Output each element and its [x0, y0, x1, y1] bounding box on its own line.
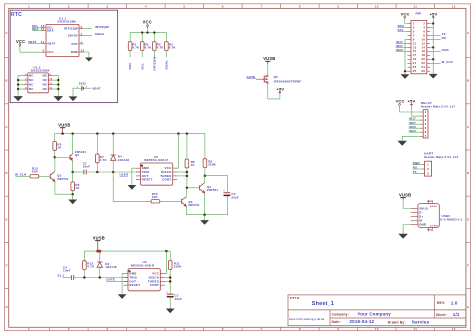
wire Q2 collector node to C1 [73, 171, 84, 173]
svg-text:ULED: ULED [120, 173, 129, 177]
junction dots RPI right rail [432, 22, 434, 60]
svg-text:+5V: +5V [408, 98, 416, 103]
wire Q5 drain to +5V [268, 84, 280, 99]
wire VBAT [28, 42, 42, 44]
svg-text:Date:: Date: [332, 320, 341, 324]
svg-text:4.7K: 4.7K [157, 46, 165, 50]
border zone ticks left [5, 58, 9, 289]
svg-text:12: 12 [452, 327, 456, 331]
svg-text:DS3231SN#: DS3231SN# [31, 68, 50, 72]
connector UART body [425, 161, 432, 176]
USB pin names [419, 206, 428, 226]
svg-text:CONT: CONT [150, 283, 159, 287]
wire OUT column down to R10 row [113, 172, 151, 201]
resistor R13 51R [30, 175, 39, 178]
svg-text:SDA: SDA [128, 62, 132, 69]
wire 32kHz [84, 35, 93, 37]
svg-text:W_CLK: W_CLK [15, 172, 27, 176]
connector RELAY body [423, 110, 428, 138]
svg-text:4.7K: 4.7K [132, 46, 140, 50]
ground symbol RPI right [429, 74, 438, 79]
wire GATE to U4 OUT [106, 280, 128, 282]
svg-text:1: 1 [28, 327, 30, 331]
svg-text:F: F [467, 264, 469, 268]
ground symbol U4 [118, 294, 127, 299]
svg-text:2N5551: 2N5551 [188, 203, 200, 207]
junction dots pull-up rail [141, 31, 156, 33]
wire VUSB rail (555 #2) [84, 251, 170, 261]
svg-text:3: 3 [427, 172, 429, 176]
svg-text:RESET: RESET [142, 178, 153, 182]
svg-text:11: 11 [413, 4, 417, 8]
wire U4 GND to ground [122, 274, 123, 295]
wire Q3 emitter to bottom rail [186, 196, 227, 215]
svg-text:GATE: GATE [247, 75, 256, 79]
wire RELAY pin 7 to ground [402, 136, 420, 140]
svg-text:E: E [5, 217, 7, 221]
wire node to ground [72, 194, 74, 199]
resistor R1 4.7K [128, 42, 132, 51]
svg-text:6: 6 [222, 327, 224, 331]
svg-text:4.7K: 4.7K [145, 46, 153, 50]
transistor Q5 IRF9540NSTRPBF [262, 75, 268, 84]
resistor R11 510K [168, 261, 172, 270]
resistor R12 4.7K [83, 261, 87, 270]
svg-text:Q2: Q2 [75, 153, 79, 157]
svg-text:Your Company: Your Company [357, 312, 391, 317]
svg-text:VCC: VCC [47, 50, 54, 54]
wire R9 bottom to output node [204, 168, 206, 176]
svg-text:NE555G-S08-R: NE555G-S08-R [144, 158, 168, 162]
wire R10 to Q3 base [160, 200, 182, 202]
wire U4 DISCH to column [165, 277, 170, 279]
wire U1.2 left NC bus [18, 76, 23, 97]
svg-text:26: 26 [421, 69, 425, 73]
U3 pin stubs [136, 168, 177, 180]
junction dots on TRIG wire [96, 171, 114, 174]
ground symbol USB [398, 234, 408, 239]
junction dots U1.2 left [17, 79, 19, 90]
junction dot emitter node [71, 193, 74, 196]
IC U4 NE555 body [128, 269, 160, 291]
svg-text:VCC: VCC [401, 11, 410, 16]
svg-text:E: E [467, 217, 469, 221]
svg-text:+5V: +5V [430, 11, 438, 16]
svg-text:hups://tiny.sharing-p.db.bb: hups://tiny.sharing-p.db.bb [289, 318, 325, 321]
IC U1.2 DS3231SN# body [28, 73, 48, 93]
svg-text:S1.1: S1.1 [58, 274, 65, 278]
svg-text:2: 2 [43, 49, 45, 53]
svg-text:NC: NC [29, 74, 34, 78]
USB shield stubs top [429, 200, 433, 204]
USB pin stubs left [411, 209, 418, 225]
ground symbol output stage [200, 220, 209, 225]
svg-text:NC: NC [43, 87, 48, 91]
resistor R5 1K [53, 142, 57, 151]
svg-text:7: 7 [425, 134, 427, 138]
junction node Q1 collector / Q2 base [53, 156, 56, 159]
hierarchical sheet RTC [10, 10, 117, 102]
svg-text:+: + [223, 190, 225, 193]
junction dots U1.2 right [57, 79, 59, 90]
svg-text:Sheet:: Sheet: [436, 313, 447, 317]
svg-text:G: G [5, 305, 8, 309]
resistor R9 220K [203, 159, 207, 168]
svg-text:IRF9540NSTRPBF: IRF9540NSTRPBF [274, 80, 302, 84]
svg-text:22uF: 22uF [175, 297, 183, 301]
title block frame [288, 295, 466, 326]
svg-text:G: G [467, 305, 470, 309]
svg-text:10: 10 [375, 4, 379, 8]
svg-text:+5V: +5V [276, 87, 284, 92]
svg-text:RESET: RESET [129, 283, 140, 287]
svg-text:GND: GND [427, 201, 433, 203]
svg-text:4: 4 [81, 40, 83, 44]
transistor Q1 2N5551 [50, 171, 55, 181]
capacitor C2 22uF polarized [224, 192, 231, 194]
transistor Q3 2N5551 [182, 197, 187, 207]
svg-text:2019-04-12: 2019-04-12 [350, 319, 375, 324]
svg-text:U-C-MODD-1-1: U-C-MODD-1-1 [440, 218, 463, 222]
svg-text:TITLE:: TITLE: [290, 296, 301, 300]
svg-text:GND: GND [71, 50, 78, 54]
svg-text:VCC: VCC [16, 39, 25, 44]
wire Q4 emitter down [204, 193, 206, 215]
svg-text:VUSB: VUSB [58, 123, 70, 128]
wire R13 to Q1 base [39, 175, 50, 177]
RPI pin numbers [413, 21, 426, 73]
svg-text:8: 8 [299, 327, 301, 331]
svg-text:10: 10 [375, 327, 379, 331]
wire GATE to Q5 gate [256, 78, 262, 80]
svg-text:RPI: RPI [416, 11, 422, 15]
svg-text:10nF: 10nF [83, 165, 91, 169]
diode D4 1N4148 [112, 134, 114, 155]
svg-text:+: + [166, 291, 168, 294]
svg-text:VBAT: VBAT [92, 86, 101, 90]
ground symbol battery [69, 96, 78, 101]
svg-text:GND: GND [419, 222, 426, 226]
wire VUSB to Q5 [267, 64, 269, 75]
wire battery left to ground [73, 88, 82, 96]
wires below pull-ups [130, 51, 166, 58]
svg-text:GND: GND [427, 230, 433, 232]
wire R5 bottom [54, 150, 56, 157]
RPI pin stubs left [408, 24, 412, 72]
wire Q2 collector down [72, 161, 74, 172]
svg-text:32KHZ: 32KHZ [68, 34, 78, 38]
wire S1.1 to C4 [63, 277, 72, 279]
RELAY pin stubs [420, 112, 424, 136]
wire +5V to RELAY pin 2 [412, 106, 420, 116]
svg-text:RX: RX [442, 36, 446, 40]
wire Q4 collector up [204, 176, 206, 183]
svg-text:NC: NC [29, 83, 34, 87]
capacitor C3 22uF polarized [167, 293, 174, 295]
IC U1.1 DS3231SN# body [46, 24, 79, 56]
svg-text:4.7K: 4.7K [87, 265, 95, 269]
svg-text:1: 1 [28, 4, 30, 8]
ground symbol RELAY [397, 141, 407, 146]
wire U3 THRES to R8 column [177, 175, 187, 177]
wire SDA [32, 29, 42, 31]
border zone ticks top [50, 4, 435, 9]
ground symbol U3 [128, 185, 137, 190]
ground symbol C3 [166, 309, 175, 314]
svg-text:1/1: 1/1 [453, 312, 460, 317]
U1.2 pin stubs [23, 76, 52, 89]
wire Q1 collector [54, 157, 56, 171]
svg-text:F: F [6, 264, 8, 268]
svg-text:9: 9 [337, 4, 339, 8]
RPI pin stubs right [427, 24, 430, 72]
svg-text:Header Male-2.54_1x7: Header Male-2.54_1x7 [421, 104, 456, 108]
svg-text:8: 8 [299, 4, 301, 8]
wire bottom rail to ground [204, 215, 206, 220]
resistor R3 4.7K [153, 42, 157, 51]
svg-text:1K: 1K [75, 186, 80, 190]
junction dot RPI left rail [404, 70, 406, 72]
svg-text:11: 11 [413, 327, 417, 331]
svg-text:VBAT: VBAT [47, 41, 56, 45]
wire C3 to ground [169, 297, 171, 309]
junction dot output node [204, 174, 207, 177]
svg-text:5: 5 [183, 4, 185, 8]
wire U4 VCC up to rail [160, 251, 166, 274]
svg-text:12: 12 [452, 4, 456, 8]
transistor Q4 2N5551 [199, 183, 204, 193]
svg-text:3: 3 [106, 327, 108, 331]
wire VUSB rail (main 555) [55, 134, 205, 159]
svg-text:4.7K: 4.7K [100, 158, 108, 162]
svg-text:2: 2 [427, 167, 429, 171]
transistor Q2 2N5401 [70, 154, 73, 161]
svg-text:32kHz: 32kHz [95, 32, 105, 36]
svg-text:VUSB: VUSB [93, 236, 105, 241]
wire U1.2 right NC bus [53, 76, 59, 97]
wire node to Q2 base [55, 156, 70, 158]
svg-text:IO23: IO23 [442, 48, 449, 52]
svg-text:VUSB: VUSB [399, 193, 411, 198]
svg-text:2N5551: 2N5551 [207, 188, 219, 192]
svg-text:NE555G-S08-R: NE555G-S08-R [131, 263, 155, 267]
svg-text:VUSB: VUSB [263, 56, 275, 61]
svg-text:25: 25 [413, 69, 417, 73]
svg-text:3: 3 [81, 25, 83, 29]
wire USB GND to ground [403, 225, 410, 234]
wire VCC to U1.1 pin 2 [20, 47, 42, 52]
svg-text:barvius: barvius [412, 320, 429, 325]
svg-text:4: 4 [145, 4, 147, 8]
USB shield stubs bottom [429, 227, 433, 231]
U1.1 pin stubs and numbers [42, 27, 84, 52]
svg-text:SCL: SCL [140, 63, 144, 69]
svg-text:2: 2 [68, 4, 70, 8]
svg-text:NC: NC [43, 78, 48, 82]
svg-text:2: 2 [68, 327, 70, 331]
svg-text:1N4148: 1N4148 [118, 158, 130, 162]
svg-text:1K: 1K [191, 163, 196, 167]
border zone ticks bottom [50, 327, 435, 330]
junction dots on TRIG wire 2 [83, 276, 101, 279]
wire R8 bottom through DISCH/THRES to Q4 base [187, 168, 200, 188]
svg-text:1K: 1K [57, 145, 62, 149]
wire U3 DISCH to R8 column [177, 171, 187, 173]
ground symbol U1.2 right [54, 96, 64, 101]
svg-text:1.0: 1.0 [451, 301, 458, 306]
svg-text:51R: 51R [32, 169, 39, 173]
svg-text:6: 6 [222, 4, 224, 8]
resistor R10 10K [151, 200, 160, 203]
wire VCC to RELAY pin 1 [400, 105, 420, 112]
svg-text:NC: NC [43, 83, 48, 87]
svg-text:7: 7 [260, 327, 262, 331]
wire Q3 collector up to Q4 base node [185, 188, 187, 197]
resistor R7 4.7K [96, 134, 98, 154]
UART pin stubs [421, 165, 425, 174]
wire VCC to RPI pin 1 [405, 18, 408, 23]
wire U3 VCC up to rail [173, 134, 179, 169]
svg-text:32kHz: 32kHz [165, 60, 169, 70]
svg-text:10K: 10K [152, 195, 159, 199]
wire SCL [32, 26, 42, 28]
svg-text:220K: 220K [208, 163, 216, 167]
svg-text:RST: RST [72, 42, 78, 46]
wire RPI left ground rail [405, 39, 408, 74]
svg-text:DS3231SN#: DS3231SN# [58, 20, 77, 24]
svg-text:4.7K: 4.7K [169, 46, 177, 50]
svg-text:Drawn By:: Drawn By: [388, 321, 406, 325]
svg-text:VCC: VCC [143, 19, 152, 24]
svg-text:2N5551: 2N5551 [57, 177, 69, 181]
ground symbol RPI left [401, 74, 410, 79]
wire +5V rail down RPI right [432, 19, 434, 74]
wire C4 to U4 TRIG [74, 277, 128, 279]
junction dot Q2 collector node [71, 171, 74, 174]
junction dots R11 column [169, 276, 172, 282]
svg-text:22uF: 22uF [231, 195, 239, 199]
wire W_CLK to R13 [16, 175, 31, 177]
IC U3 NE555 body [140, 163, 172, 185]
wire Q1 emitter down [55, 181, 73, 194]
wire Q2 emitter to rail [72, 134, 74, 154]
svg-text:A1 B12: A1 B12 [430, 224, 439, 227]
ground symbol U1.1 [85, 58, 93, 62]
ground symbol U1.2 left [13, 96, 23, 101]
border zone ticks right [466, 58, 471, 289]
svg-text:INT/SQW: INT/SQW [95, 25, 109, 29]
wire VCC rail pull-ups [130, 33, 166, 42]
svg-text:Header Male-2.54_1x3: Header Male-2.54_1x3 [424, 155, 459, 159]
svg-text:2032: 2032 [79, 82, 86, 86]
svg-text:Sheet_1: Sheet_1 [312, 301, 334, 307]
svg-text:REV:: REV: [437, 301, 445, 305]
svg-text:1: 1 [81, 32, 83, 36]
wire U3 GND to ground [132, 168, 136, 185]
svg-text:SDA: SDA [47, 28, 54, 32]
resistor R6 1K [72, 172, 74, 182]
wire U1.1 GND [84, 52, 89, 58]
svg-text:NC: NC [43, 74, 48, 78]
wire C1 to TRIG [86, 171, 140, 173]
svg-text:NC: NC [29, 87, 34, 91]
svg-text:1N4148: 1N4148 [105, 265, 117, 269]
svg-text:3: 3 [106, 4, 108, 8]
svg-text:RTC: RTC [11, 12, 22, 18]
connector USB0 body [418, 204, 439, 228]
ground symbol Q1/R6 [68, 200, 77, 205]
svg-text:CONT: CONT [162, 178, 171, 182]
resistor R8 1K [186, 134, 188, 160]
svg-text:VCC: VCC [396, 98, 405, 103]
resistor R2 4.7K [140, 42, 144, 51]
wire VUSB to VBUS [403, 200, 410, 209]
svg-text:INT/SQW: INT/SQW [152, 57, 156, 71]
svg-text:Company:: Company: [332, 312, 349, 316]
svg-text:9: 9 [337, 327, 339, 331]
diode D2 1N4148 [99, 251, 101, 262]
svg-text:5: 5 [183, 327, 185, 331]
svg-text:1: 1 [427, 163, 429, 167]
svg-text:INT/SQW: INT/SQW [64, 26, 78, 30]
svg-text:W_CLK: W_CLK [442, 60, 454, 64]
USB pin numbers [430, 205, 439, 228]
svg-text:10nF: 10nF [63, 269, 71, 273]
junction dots R8 column [186, 171, 189, 189]
wire output node to C2 top [205, 176, 228, 193]
svg-text:7: 7 [260, 4, 262, 8]
wire INT/SQW [84, 28, 93, 30]
wire R11 bottom through DISCH/THRES to C3 [169, 269, 171, 294]
svg-text:4: 4 [145, 327, 147, 331]
U4 pin stubs [124, 274, 165, 286]
svg-text:510K: 510K [174, 264, 182, 268]
svg-text:Q5: Q5 [274, 75, 278, 79]
junction dots on VUSB rail [61, 132, 188, 135]
wire U4 THRES to column [165, 280, 170, 282]
resistor R4 4.7K [165, 42, 169, 51]
junction dot bottom rail [203, 213, 206, 216]
svg-text:NC: NC [29, 78, 34, 82]
wire battery right [83, 87, 91, 89]
svg-text:A4 B9: A4 B9 [430, 205, 438, 208]
junction dots rail 2 [96, 250, 167, 253]
